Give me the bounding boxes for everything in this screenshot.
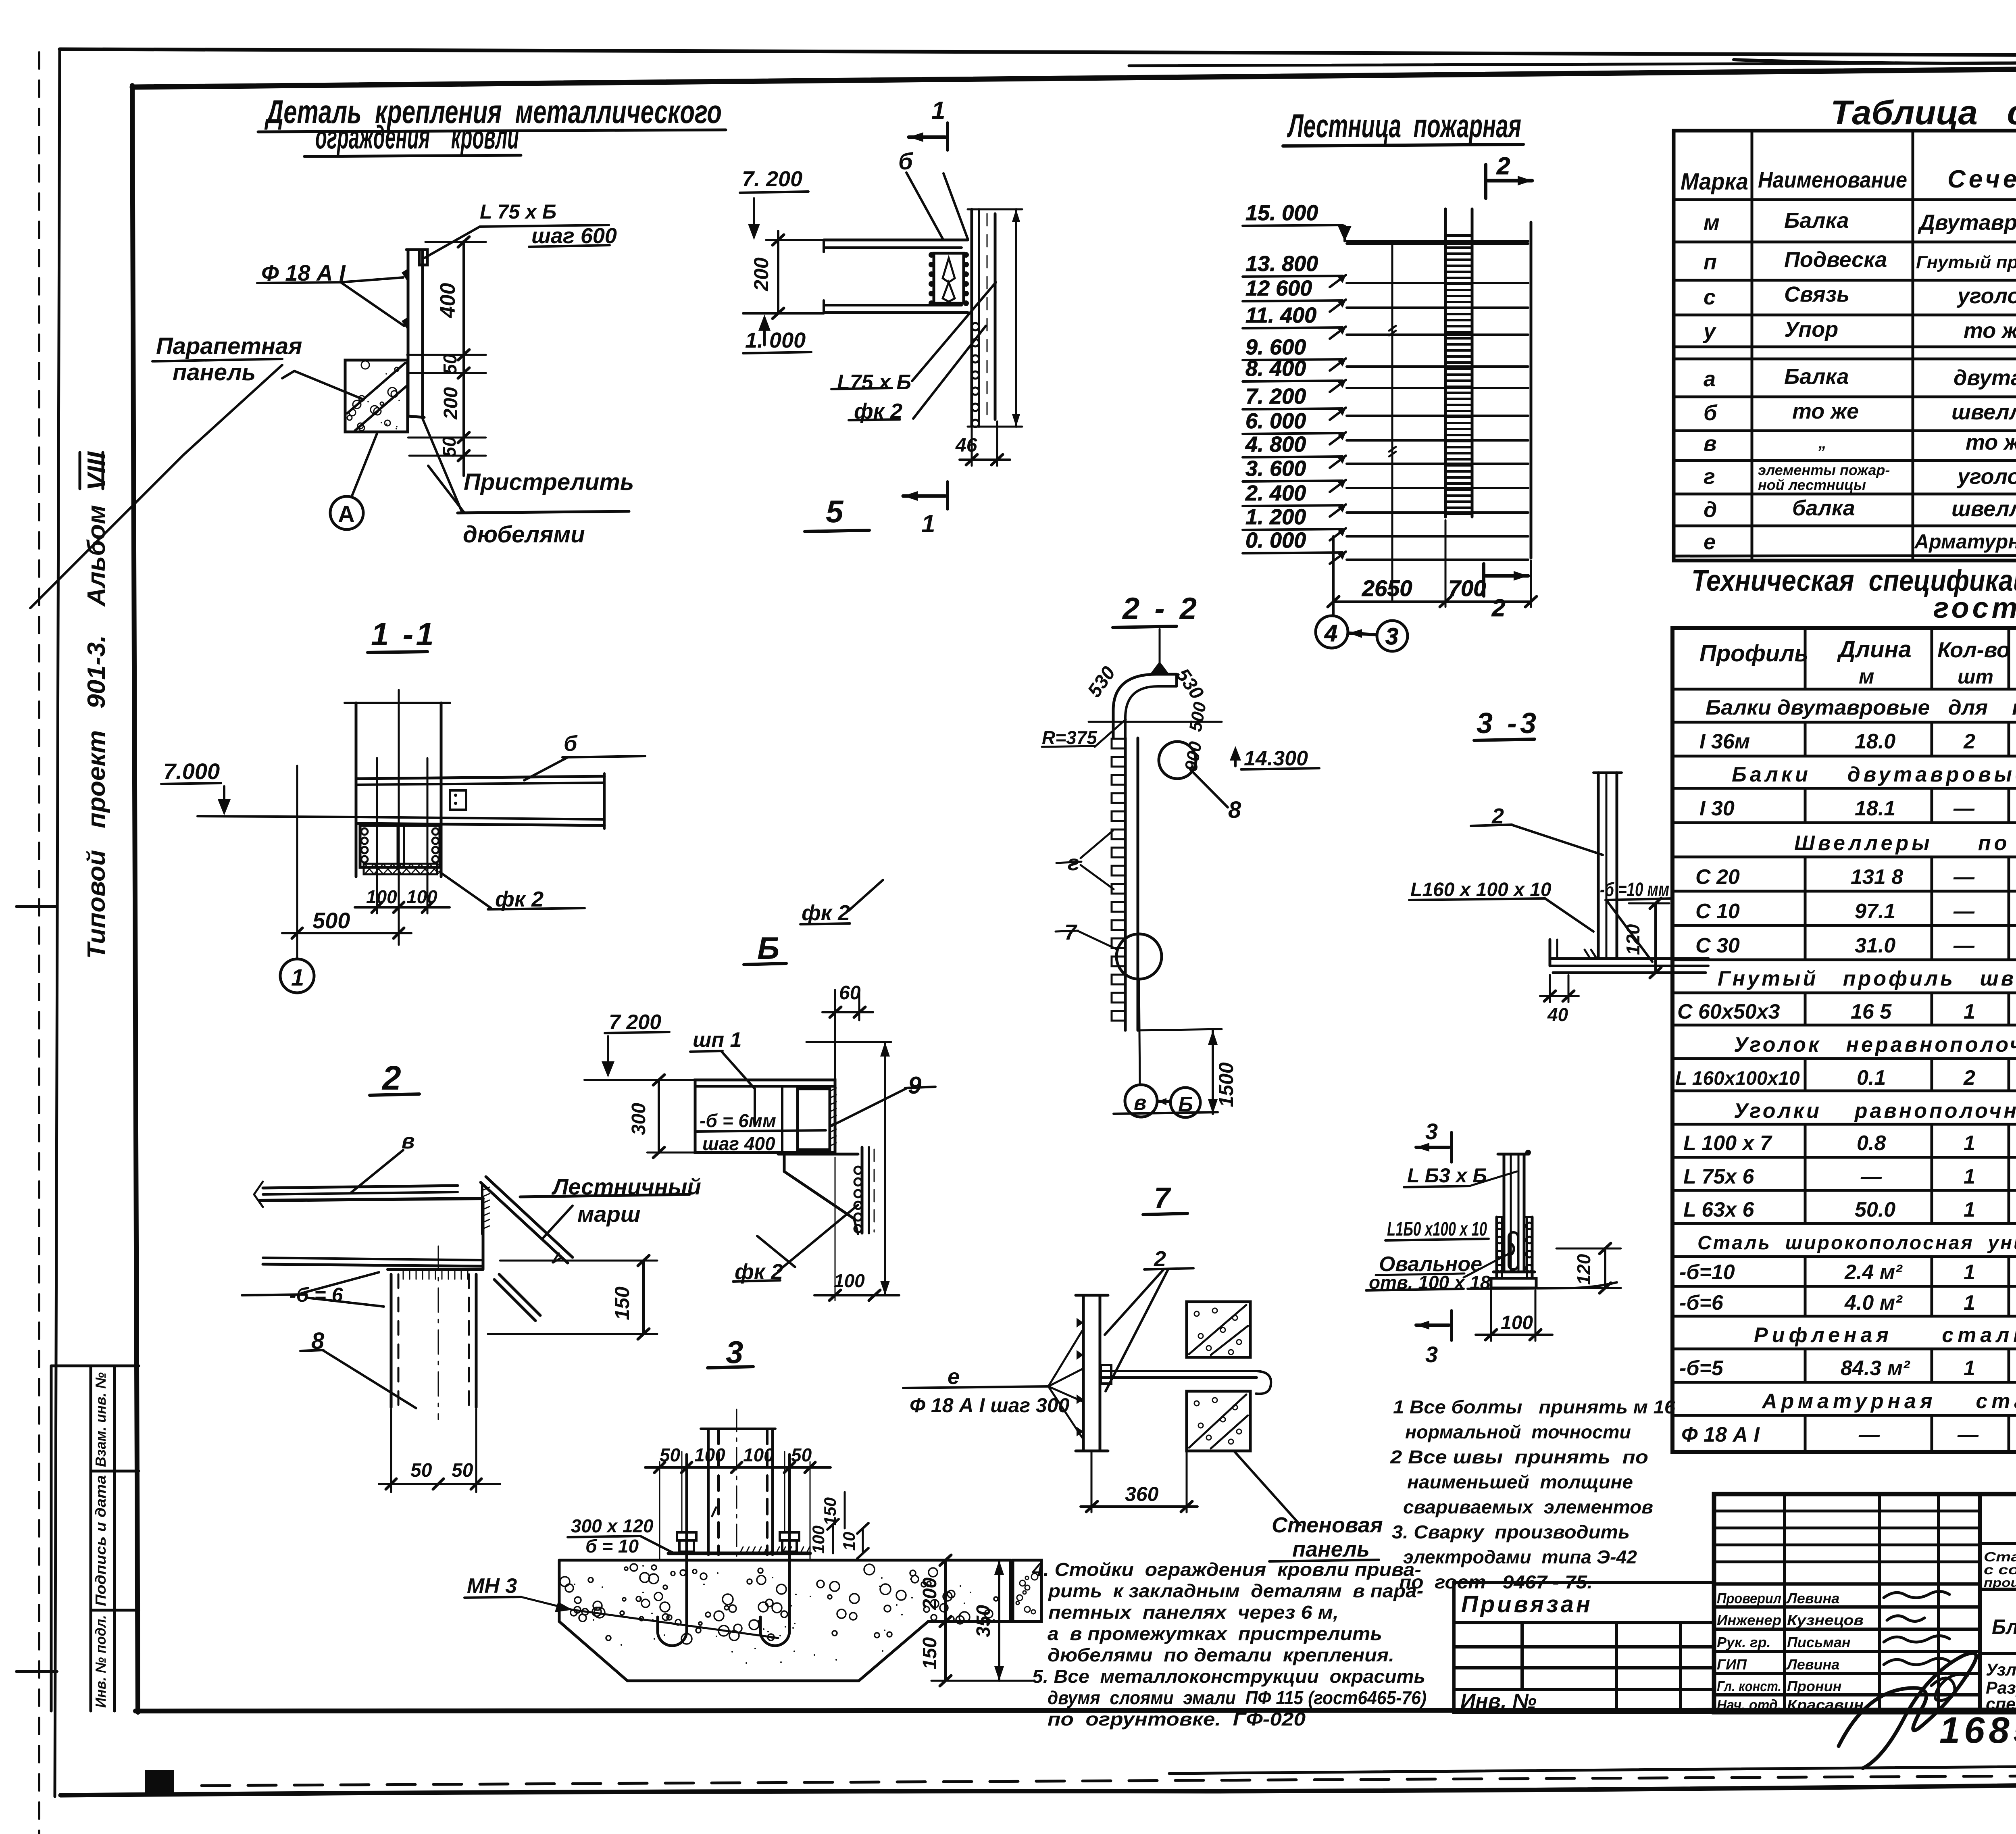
svg-text:1: 1 [1964, 1198, 1975, 1221]
svg-text:2. 400: 2. 400 [1245, 481, 1306, 505]
svg-text:L75 х Б: L75 х Б [837, 371, 911, 394]
svg-text:4. Стойки ограждения кровли: 4. Стойки ограждения кровли прива- [1032, 1559, 1421, 1580]
16857-01 33 handwritten [1939, 1710, 2016, 1754]
svg-text:L1Б0 х100 х 10: L1Б0 х100 х 10 [1387, 1219, 1487, 1240]
svg-text:46: 46 [955, 435, 977, 456]
svg-text:—: — [1858, 1423, 1880, 1446]
svg-text:Инженер: Инженер [1717, 1612, 1781, 1628]
svg-text:R=375: R=375 [1042, 727, 1098, 748]
svg-text:то же: то же [1964, 319, 2016, 343]
svg-text:Б: Б [1178, 1093, 1193, 1116]
svg-text:Красавин: Красавин [1787, 1696, 1864, 1713]
svg-text:200: 200 [919, 1578, 941, 1610]
detail 5: beam to ladder connection [740, 123, 1022, 509]
svg-text:100: 100 [406, 886, 437, 907]
svg-text:электродами типа Э-42: электродами типа Э-42 [1403, 1546, 1637, 1567]
svg-text:Подвеска: Подвеска [1784, 248, 1887, 272]
svg-text:60: 60 [839, 982, 861, 1004]
svg-text:2: 2 [1496, 152, 1510, 179]
svg-text:0.8: 0.8 [1857, 1132, 1886, 1155]
svg-text:2: 2 [381, 1059, 401, 1097]
svg-text:Сталь широкополосная универс: Сталь широкополосная универсальная по го… [1697, 1232, 2016, 1254]
svg-text:то же: то же [1792, 399, 1859, 423]
svg-text:швеллер: швеллер [1951, 400, 2016, 424]
svg-text:Балки двутавровые для по: Балки двутавровые для подвесных путей по… [1706, 696, 2016, 719]
svg-text:16857-01: 16857-01 [1939, 1710, 2016, 1751]
svg-text:Взам. инв. №: Взам. инв. № [92, 1372, 109, 1467]
svg-text:свариваемых элементов: свариваемых элементов [1403, 1496, 1653, 1517]
svg-text:е: е [948, 1365, 960, 1389]
fold marks on left margin [16, 905, 57, 908]
svg-text:1 -1: 1 -1 [371, 616, 436, 652]
left margin vertical text: Типовой проект 901-3. Альбом VIII [80, 451, 110, 959]
svg-text:0.1: 0.1 [1857, 1066, 1886, 1090]
svg-text:L Б3 х Б: L Б3 х Б [1407, 1164, 1487, 1187]
svg-text:7 200: 7 200 [609, 1011, 661, 1034]
svg-text:С 10: С 10 [1695, 900, 1740, 923]
svg-text:двумя слоями эмали ПФ 115 (: двумя слоями эмали ПФ 115 (гост6465-76) [1048, 1687, 1427, 1708]
svg-text:—: — [1953, 797, 1975, 820]
svg-text:9. 600: 9. 600 [1245, 335, 1306, 359]
svg-text:6. 000: 6. 000 [1245, 409, 1306, 433]
svg-text:С 60х50х3: С 60х50х3 [1677, 1000, 1780, 1023]
svg-text:—: — [1953, 934, 1975, 957]
svg-text:Марка: Марка [1681, 169, 1748, 195]
svg-text:рить к закладным деталям в: рить к закладным деталям в пара- [1048, 1580, 1423, 1601]
detail 2: roof edge with stair stringer [242, 1059, 689, 1492]
svg-text:100: 100 [809, 1526, 828, 1554]
svg-text:Арматурная сталь: Арматурная сталь [1914, 530, 2016, 553]
svg-text:Парапетная: Парапетная [156, 333, 302, 359]
svg-text:—: — [1953, 900, 1975, 923]
svg-text:Инв. № подл.: Инв. № подл. [92, 1615, 109, 1708]
svg-text:50: 50 [791, 1444, 812, 1465]
svg-text:1. 000: 1. 000 [745, 328, 806, 352]
svg-text:-б =10 мм: -б =10 мм [1600, 879, 1669, 900]
svg-text:Кузнецов: Кузнецов [1787, 1612, 1864, 1628]
svg-text:двутавр: двутавр [1954, 366, 2016, 390]
detail 3: foundation with anchor bolts [464, 1334, 1041, 1686]
svg-text:L 160х100х10: L 160х100х10 [1675, 1068, 1800, 1089]
svg-text:120: 120 [1573, 1254, 1594, 1285]
svg-text:Гл. конст.: Гл. конст. [1717, 1678, 1781, 1694]
spec table title [1691, 564, 2016, 624]
svg-text:—: — [1953, 865, 1975, 889]
svg-text:1. 200: 1. 200 [1245, 505, 1306, 529]
svg-text:по огрунтовке. ГФ-020: по огрунтовке. ГФ-020 [1048, 1709, 1306, 1730]
svg-text:1: 1 [1964, 1132, 1975, 1155]
svg-text:1 Все болты принять м 16: 1 Все болты принять м 16 [1393, 1396, 1675, 1417]
svg-text:-б=5: -б=5 [1679, 1357, 1724, 1380]
svg-text:-б = 6: -б = 6 [289, 1284, 344, 1306]
title block [1714, 1494, 2016, 1712]
svg-text:то же: то же [1966, 430, 2016, 454]
svg-text:С 30: С 30 [1695, 934, 1740, 957]
svg-text:Инв. №: Инв. № [1460, 1690, 1537, 1713]
svg-text:31.0: 31.0 [1855, 934, 1895, 957]
svg-text:м: м [1704, 210, 1720, 235]
svg-text:300: 300 [628, 1103, 650, 1135]
svg-text:Рук. гр.: Рук. гр. [1717, 1634, 1771, 1651]
svg-text:Привязан: Привязан [1461, 1591, 1593, 1617]
svg-text:10: 10 [839, 1532, 858, 1551]
svg-text:150: 150 [919, 1637, 941, 1669]
svg-text:97.1: 97.1 [1855, 900, 1895, 923]
svg-text:Рифленая сталь по гос: Рифленая сталь по гост 8568-77* [1754, 1323, 2016, 1347]
svg-text:Двутавр: Двутавр [1918, 210, 2016, 235]
svg-text:L160 х 100 х 10: L160 х 100 х 10 [1410, 879, 1552, 900]
svg-text:7: 7 [1154, 1182, 1171, 1214]
svg-text:—: — [1957, 1423, 1979, 1446]
svg-text:2650: 2650 [1362, 575, 1412, 601]
svg-text:16 5: 16 5 [1851, 1000, 1892, 1023]
svg-text:50: 50 [439, 354, 460, 375]
svg-text:L 75х 6: L 75х 6 [1683, 1165, 1754, 1188]
svg-text:200: 200 [750, 257, 773, 292]
svg-text:у: у [1702, 319, 1717, 344]
svg-text:Уголки равнополочные по: Уголки равнополочные по гост 8509-72 [1734, 1099, 2016, 1123]
svg-text:12 600: 12 600 [1245, 276, 1312, 300]
svg-text:50.0: 50.0 [1855, 1198, 1895, 1221]
svg-text:L 75 х Б: L 75 х Б [480, 200, 556, 223]
svg-text:700: 700 [1448, 575, 1486, 601]
svg-text:2: 2 [1963, 730, 1975, 753]
svg-text:100: 100 [1501, 1312, 1533, 1334]
svg-text:1: 1 [1964, 1000, 1975, 1023]
svg-text:4. 800: 4. 800 [1245, 432, 1306, 456]
svg-text:шаг 400: шаг 400 [702, 1133, 775, 1154]
svg-text:40: 40 [1547, 1004, 1568, 1025]
svg-text:панель: панель [173, 359, 256, 386]
svg-text:Узлы 1÷8. Пожарная лестница.: Узлы 1÷8. Пожарная лестница. [1986, 1660, 2016, 1680]
svg-text:фк 2: фк 2 [802, 901, 850, 925]
svg-text:Балки двутавровые по: Балки двутавровые по гост 8239-72 [1732, 763, 2016, 786]
svg-text:Лестничный: Лестничный [551, 1174, 701, 1199]
svg-text:4.0 м²: 4.0 м² [1844, 1291, 1903, 1315]
svg-text:84.3 м²: 84.3 м² [1841, 1357, 1910, 1380]
svg-text:е: е [1704, 530, 1716, 554]
svg-text:наименьшей толщине: наименьшей толщине [1407, 1471, 1633, 1492]
svg-text:Типовой проект 901-3. А: Типовой проект 901-3. Альбом VIII [83, 451, 110, 959]
svg-text:Таблица сечений: Таблица сечений [1831, 94, 2016, 131]
svg-text:С 20: С 20 [1695, 865, 1740, 889]
spec table text [1675, 636, 2016, 1446]
svg-text:Пристрелить: Пристрелить [464, 469, 634, 495]
svg-text:2: 2 [1963, 1066, 1975, 1090]
svg-text:а в промежутках пристрелить: а в промежутках пристрелить [1048, 1623, 1382, 1644]
svg-text:Балка: Балка [1784, 208, 1849, 233]
svg-text:элементы пожар-: элементы пожар- [1758, 462, 1890, 478]
section 2-2: ladder rail elevation [1042, 592, 1319, 1117]
svg-text:марш: марш [577, 1201, 641, 1227]
svg-text:производительностью 20 тыс м³/: производительностью 20 тыс м³/сутки с ми… [1984, 1576, 2016, 1590]
svg-text:3: 3 [1425, 1342, 1438, 1367]
svg-text:фк 2: фк 2 [735, 1260, 783, 1284]
svg-text:Упор: Упор [1784, 317, 1838, 342]
svg-text:18.0: 18.0 [1855, 730, 1895, 753]
svg-text:3: 3 [1385, 623, 1398, 650]
svg-text:в: в [1134, 1091, 1146, 1115]
section 1-1 [161, 616, 645, 993]
svg-text:Лестница пожарная: Лестница пожарная [1287, 108, 1521, 144]
svg-text:шт: шт [1958, 665, 1993, 688]
svg-text:б: б [564, 732, 578, 756]
svg-text:L 100 х 7: L 100 х 7 [1683, 1132, 1772, 1155]
svg-text:Нач. отд.: Нач. отд. [1717, 1696, 1781, 1713]
svg-text:18.1: 18.1 [1855, 797, 1895, 820]
svg-text:-б=6: -б=6 [1679, 1291, 1724, 1315]
svg-text:7.000: 7.000 [163, 759, 220, 784]
svg-text:Левина: Левина [1786, 1590, 1839, 1607]
svg-text:шаг 600: шаг 600 [531, 224, 617, 248]
svg-text:Связь: Связь [1784, 282, 1849, 306]
svg-text:1500: 1500 [1215, 1062, 1237, 1107]
svg-text:2.4 м²: 2.4 м² [1844, 1261, 1903, 1284]
svg-text:Кол-во: Кол-во [1937, 638, 2010, 662]
svg-text:131 8: 131 8 [1851, 865, 1903, 889]
svg-text:Гнутый профиль: Гнутый профиль [1916, 252, 2016, 272]
svg-text:Ф 18 А I: Ф 18 А I [261, 260, 346, 286]
spec table grid [1672, 628, 2016, 1452]
svg-text:13. 800: 13. 800 [1245, 252, 1318, 276]
svg-text:панель: панель [1292, 1537, 1370, 1561]
svg-text:Письман: Письман [1787, 1634, 1851, 1651]
svg-text:Профиль: Профиль [1699, 640, 1808, 667]
svg-text:4: 4 [1324, 620, 1337, 646]
svg-text:в: в [402, 1129, 415, 1153]
svg-text:б: б [1704, 401, 1718, 425]
svg-text:а: а [1704, 367, 1716, 391]
svg-text:5: 5 [826, 494, 844, 529]
svg-text:Уголок неравнополочный по: Уголок неравнополочный по гост 8510-72 [1734, 1033, 2016, 1057]
svg-text:ной лестницы: ной лестницы [1758, 477, 1866, 493]
heading: Лестница пожарная [1283, 108, 1523, 146]
Таблица сечений text [1681, 144, 2016, 554]
detail A: parapet fixing [30, 225, 629, 608]
svg-text:Ф 18 А I: Ф 18 А I [1681, 1423, 1760, 1446]
svg-text:г: г [1068, 851, 1079, 875]
svg-text:дюбелями: дюбелями [463, 521, 585, 548]
svg-text:уголок: уголок [1956, 284, 2016, 308]
svg-text:8. 400: 8. 400 [1245, 356, 1306, 381]
svg-text:15. 000: 15. 000 [1245, 201, 1318, 225]
svg-text:5. Все металлоконструкции ок: 5. Все металлоконструкции окрасить [1032, 1666, 1425, 1687]
svg-text:фк 2: фк 2 [854, 399, 902, 423]
svg-text:2: 2 [1154, 1247, 1166, 1271]
svg-text:Длина: Длина [1837, 636, 1912, 663]
svg-text:-б=10: -б=10 [1679, 1261, 1735, 1284]
svg-text:Балка: Балка [1784, 365, 1849, 389]
svg-text:100: 100 [366, 886, 397, 907]
svg-text:б: б [898, 148, 914, 175]
svg-text:7: 7 [1064, 920, 1078, 944]
Привязан table [1454, 1582, 1714, 1712]
svg-text:А: А [338, 501, 355, 527]
Таблица сечений grid [1674, 131, 2016, 561]
svg-text:8: 8 [311, 1328, 325, 1354]
svg-text:уголок: уголок [1956, 465, 2016, 489]
svg-text:Швеллеры по ГОСТ 824: Швеллеры по ГОСТ 8240-72 [1794, 832, 2016, 855]
svg-text:1: 1 [1964, 1261, 1975, 1284]
signatures squiggles [1839, 1591, 1976, 1768]
svg-text:300 х 120: 300 х 120 [571, 1515, 654, 1536]
svg-text:нормальной точности: нормальной точности [1405, 1421, 1631, 1442]
svg-text:петных панелях через 6 м,: петных панелях через 6 м, [1048, 1602, 1339, 1623]
svg-text:2: 2 [1491, 594, 1505, 621]
svg-text:Проверил: Проверил [1717, 1590, 1781, 1607]
svg-text:500: 500 [312, 908, 350, 933]
svg-text:б = 10: б = 10 [585, 1536, 639, 1557]
svg-text:дюбелями по детали крепления: дюбелями по детали крепления. [1048, 1644, 1394, 1665]
svg-text:м: м [1859, 665, 1874, 688]
svg-text:120: 120 [1622, 924, 1643, 955]
svg-text:50: 50 [410, 1460, 432, 1481]
svg-text:L 63х 6: L 63х 6 [1683, 1198, 1754, 1221]
svg-text:3: 3 [1425, 1119, 1438, 1144]
svg-text:Гнутый профиль швеллер п: Гнутый профиль швеллер по гост 8278-75 [1718, 967, 2016, 990]
svg-text:3. Сварку производить: 3. Сварку производить [1392, 1521, 1630, 1542]
notes 1-3 [1390, 1396, 1676, 1592]
svg-text:200: 200 [440, 387, 462, 420]
detail 8: post base with oval hole [1366, 1119, 1621, 1367]
svg-text:ограждения кровли: ограждения кровли [315, 119, 519, 156]
heading: Деталь крепления металлического ограждения кровли [258, 94, 726, 156]
svg-text:2 - 2: 2 - 2 [1122, 592, 1200, 626]
svg-text:МН 3: МН 3 [467, 1574, 517, 1598]
svg-text:150: 150 [821, 1497, 839, 1526]
detail 7: wall attachment [903, 1182, 1379, 1561]
svg-text:1: 1 [931, 97, 945, 125]
svg-text:2: 2 [1491, 804, 1504, 828]
svg-text:Ф 18 А I шаг 300: Ф 18 А I шаг 300 [910, 1394, 1070, 1417]
svg-text:Арматурная сталь по гос: Арматурная сталь по гост 5781-75 [1761, 1390, 2016, 1413]
svg-text:1: 1 [1964, 1165, 1975, 1188]
svg-text:—: — [1860, 1165, 1882, 1188]
svg-text:400: 400 [436, 283, 460, 319]
svg-text:1: 1 [1964, 1357, 1975, 1380]
svg-text:50: 50 [452, 1460, 473, 1481]
notes 4-5 [1032, 1559, 1427, 1730]
svg-text:Левина: Левина [1786, 1656, 1839, 1673]
svg-text:фк 2: фк 2 [495, 887, 544, 911]
svg-text:2 Все швы принять по: 2 Все швы принять по [1390, 1446, 1648, 1467]
detail Б: bracket [585, 880, 935, 1300]
svg-text:„: „ [1818, 434, 1826, 452]
svg-text:гост 380-71*: гост 380-71* [1933, 592, 2016, 624]
svg-text:8: 8 [1228, 797, 1241, 823]
svg-text:д: д [1704, 498, 1717, 522]
svg-text:с: с [1704, 285, 1716, 309]
svg-text:Пронин: Пронин [1787, 1678, 1842, 1694]
svg-text:I 30: I 30 [1699, 797, 1735, 820]
svg-text:Сечение: Сечение [1947, 165, 2016, 193]
svg-text:Б: Б [757, 930, 779, 966]
svg-text:ГИП: ГИП [1717, 1656, 1747, 1673]
svg-text:3. 600: 3. 600 [1245, 456, 1306, 481]
svg-text:-б = 6мм: -б = 6мм [700, 1110, 776, 1131]
svg-text:7. 200: 7. 200 [742, 167, 802, 191]
svg-text:Блок микрофильтров.: Блок микрофильтров. [1992, 1615, 2016, 1639]
left stamp strip table [51, 1366, 139, 1711]
fire ladder elevation [1243, 152, 1537, 651]
svg-text:Подпись и дата: Подпись и дата [92, 1475, 109, 1606]
svg-text:п: п [1704, 250, 1717, 274]
svg-text:50: 50 [439, 436, 460, 457]
section 3-3 [1409, 707, 1708, 1002]
svg-text:100: 100 [743, 1444, 774, 1465]
svg-text:швеллер: швеллер [1951, 497, 2016, 521]
svg-text:9: 9 [908, 1072, 922, 1099]
svg-text:1: 1 [921, 510, 935, 538]
svg-text:г: г [1704, 465, 1715, 489]
svg-text:отв. 100 х 18: отв. 100 х 18 [1369, 1272, 1491, 1293]
svg-text:1: 1 [291, 965, 304, 991]
svg-text:в: в [1704, 431, 1717, 456]
svg-text:11. 400: 11. 400 [1245, 303, 1316, 327]
svg-text:7. 200: 7. 200 [1245, 384, 1306, 408]
svg-text:Стеновая: Стеновая [1272, 1513, 1383, 1537]
svg-text:I 36м: I 36м [1699, 730, 1750, 753]
svg-text:360: 360 [1125, 1483, 1159, 1505]
svg-text:100: 100 [694, 1444, 725, 1465]
svg-text:14.300: 14.300 [1244, 747, 1308, 770]
svg-text:350: 350 [973, 1605, 994, 1637]
svg-text:шп 1: шп 1 [693, 1028, 741, 1052]
svg-text:с содержанием взвешенных веще: с содержанием взвешенных веществ до 2500… [1984, 1562, 2016, 1577]
svg-text:1: 1 [1964, 1291, 1975, 1315]
svg-text:Наименование: Наименование [1758, 167, 1907, 192]
svg-text:50: 50 [660, 1444, 681, 1465]
svg-text:балка: балка [1792, 496, 1855, 520]
svg-text:3: 3 [726, 1334, 743, 1370]
svg-text:3 -3: 3 -3 [1477, 707, 1539, 740]
svg-text:0. 000: 0. 000 [1245, 528, 1306, 552]
svg-text:100: 100 [834, 1270, 865, 1291]
svg-text:по гост 9467 - 75.: по гост 9467 - 75. [1399, 1571, 1593, 1592]
svg-text:150: 150 [611, 1286, 633, 1320]
